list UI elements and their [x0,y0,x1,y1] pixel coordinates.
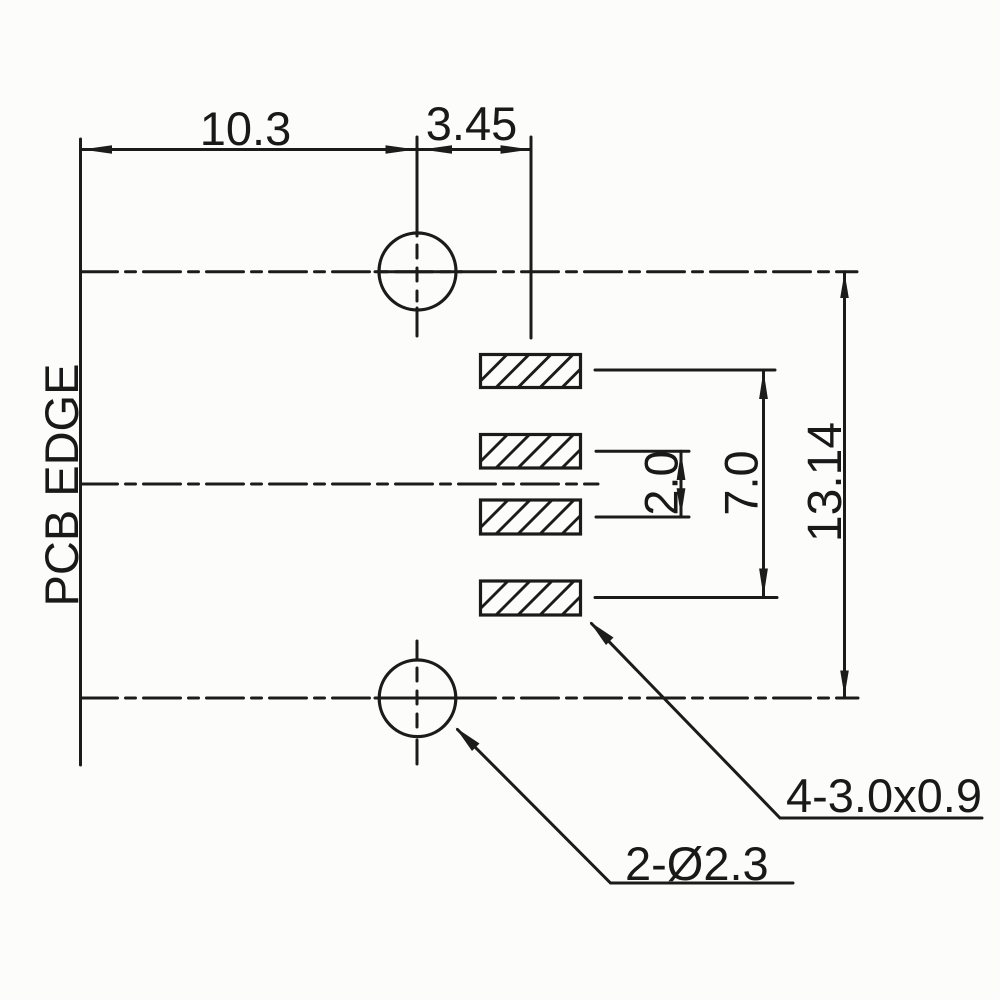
svg-text:4-3.0x0.9: 4-3.0x0.9 [786,769,982,822]
svg-text:7.0: 7.0 [715,450,768,515]
svg-text:PCB EDGE: PCB EDGE [35,364,88,607]
svg-text:3.45: 3.45 [426,97,517,150]
svg-text:13.14: 13.14 [799,422,852,542]
svg-text:2-Ø2.3: 2-Ø2.3 [625,837,769,890]
svg-text:2.0: 2.0 [635,450,688,515]
svg-text:10.3: 10.3 [200,102,291,155]
